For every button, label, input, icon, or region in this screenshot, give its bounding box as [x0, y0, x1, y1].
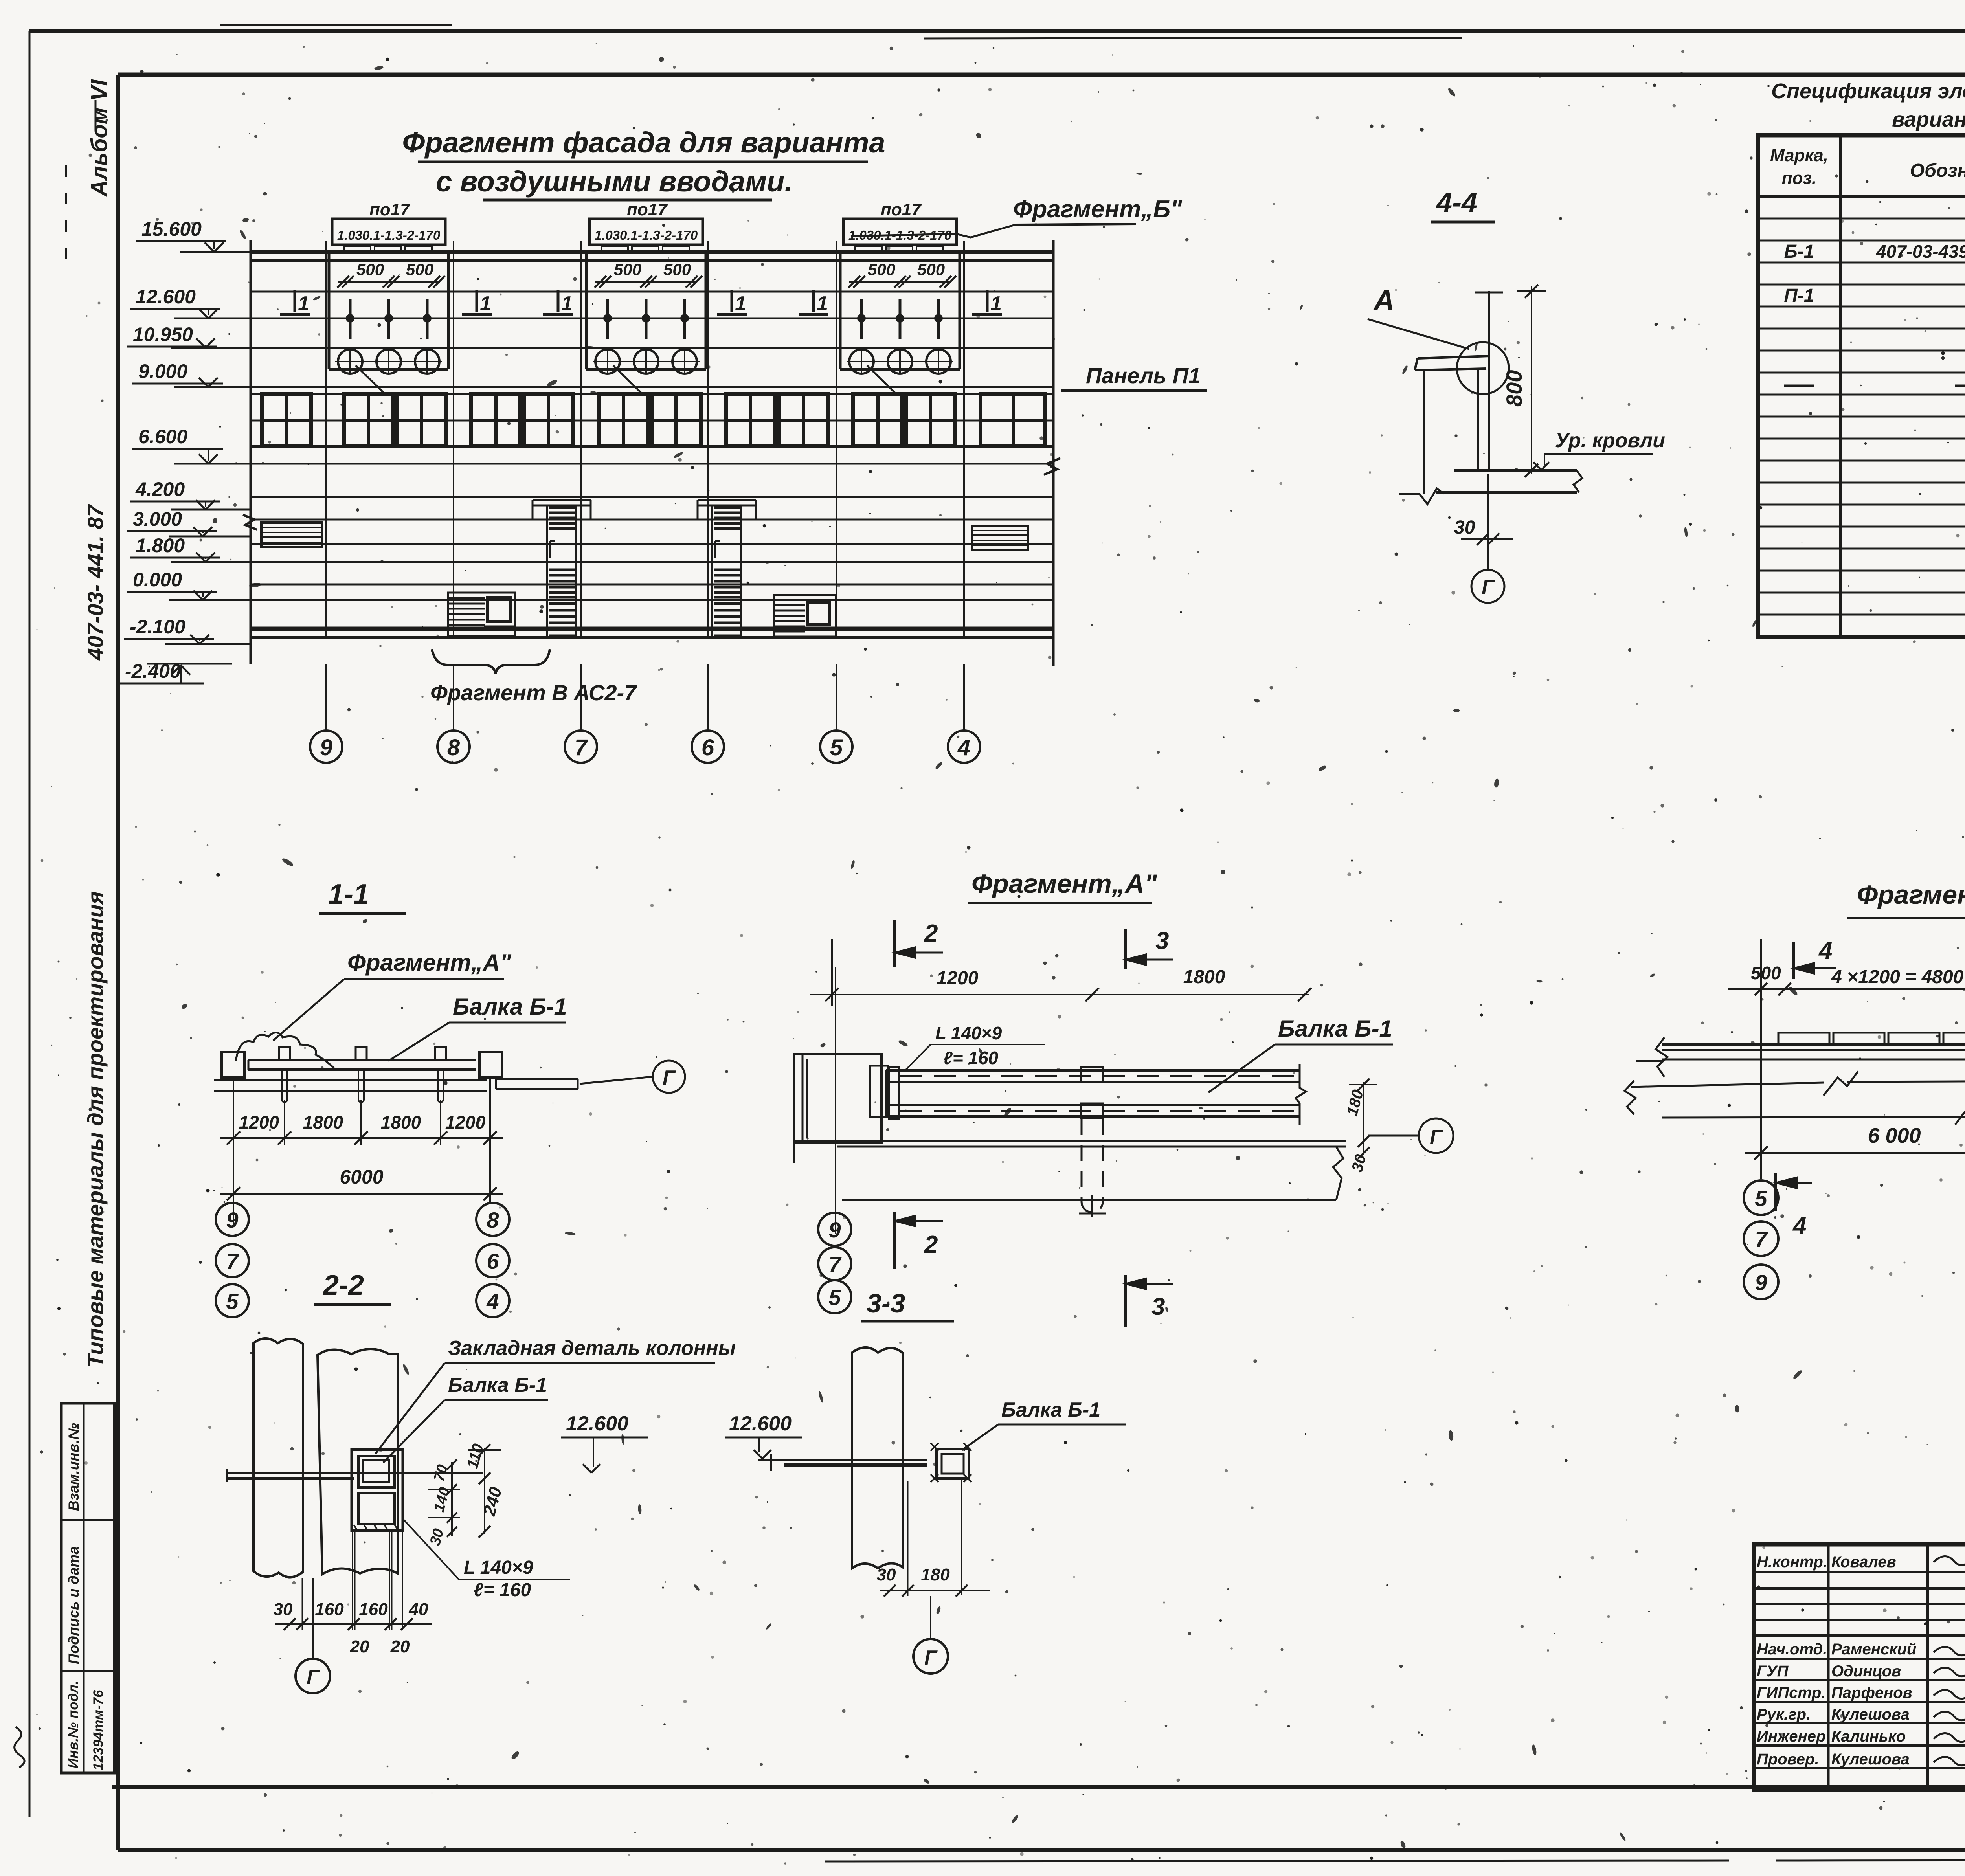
svg-text:800: 800	[1502, 370, 1526, 407]
svg-text:Подпись и дата: Подпись и дата	[66, 1546, 82, 1664]
fragment A: axis line	[835, 967, 836, 1234]
axis circle 4	[948, 731, 980, 763]
svg-text:А: А	[1373, 284, 1394, 317]
svg-text:1800: 1800	[303, 1112, 343, 1133]
svg-text:2-2: 2-2	[322, 1270, 364, 1301]
title block outline	[1754, 1544, 1965, 1790]
window unit	[652, 394, 701, 446]
hatched foundation block	[774, 595, 836, 637]
1-1 beam body	[248, 1059, 476, 1061]
window unit	[853, 394, 902, 446]
svg-text:6000: 6000	[340, 1166, 383, 1188]
svg-text:20: 20	[390, 1637, 410, 1656]
svg-text:Панель П1: Панель П1	[1086, 363, 1201, 388]
fragment A: slab lines	[794, 1140, 1346, 1142]
3-3: column	[852, 1347, 903, 1568]
svg-text:1800: 1800	[1183, 967, 1225, 988]
specification table grid	[1758, 135, 1965, 637]
3-3: bottom dims 30/180	[907, 1481, 909, 1596]
svg-text:1.030.1-1.3-2-170: 1.030.1-1.3-2-170	[337, 228, 441, 242]
svg-text:4: 4	[1818, 937, 1832, 964]
insulator base circle	[376, 349, 401, 374]
svg-text:Фрагмент В АС2-7: Фрагмент В АС2-7	[430, 680, 637, 705]
svg-text:4: 4	[957, 735, 970, 760]
svg-text:Нач.отд.: Нач.отд.	[1757, 1641, 1827, 1658]
section flag markers "1" on wall	[280, 313, 310, 316]
svg-text:Закладная деталь колонны: Закладная деталь колонны	[448, 1337, 736, 1360]
detail A circle on 4-4	[1457, 342, 1509, 394]
svg-text:0.000: 0.000	[133, 569, 182, 591]
insulator	[683, 299, 686, 339]
1-1 dimension row	[233, 1077, 234, 1224]
table material dashes	[1784, 385, 1814, 387]
fragment A: leader to axis G	[1368, 1135, 1420, 1137]
column axis lines on facade	[325, 241, 327, 637]
svg-text:1200: 1200	[445, 1112, 486, 1133]
svg-text:12394тм-76: 12394тм-76	[91, 1690, 106, 1770]
fragment B: panel band lines	[1662, 1043, 1965, 1046]
svg-text:160: 160	[315, 1600, 344, 1619]
fragment B: top welded plates	[1778, 1033, 1829, 1044]
svg-text:ГИПстр.: ГИПстр.	[1757, 1684, 1825, 1702]
2-2: vertical dims 110/240	[484, 1448, 485, 1534]
axis circle G	[653, 1061, 685, 1093]
svg-text:Рук.гр.: Рук.гр.	[1757, 1706, 1811, 1723]
svg-text:Балка Б-1: Балка Б-1	[1001, 1399, 1100, 1421]
svg-text:Марка,: Марка,	[1770, 146, 1828, 165]
svg-text:500: 500	[663, 260, 691, 279]
insulator	[860, 299, 863, 339]
insulator base circle	[672, 349, 697, 374]
window unit	[524, 394, 573, 446]
window unit	[726, 394, 775, 446]
fragment A: bolt plates mid	[1081, 1067, 1103, 1082]
1-1 beam right end block	[479, 1052, 502, 1078]
svg-text:Фрагмент фасада для варианта: Фрагмент фасада для варианта	[402, 126, 885, 159]
svg-text:8: 8	[487, 1208, 499, 1232]
svg-text:30: 30	[274, 1600, 293, 1619]
svg-text:ℓ= 160: ℓ= 160	[474, 1580, 531, 1601]
1-1 slab lines	[214, 1079, 487, 1081]
svg-text:Кулешова: Кулешова	[1831, 1706, 1910, 1723]
svg-text:Балка Б-1: Балка Б-1	[448, 1374, 547, 1397]
svg-text:Ур. кровли: Ур. кровли	[1555, 429, 1665, 452]
insulator	[606, 299, 609, 339]
insulator base circle	[595, 349, 620, 374]
axis circle 5	[820, 731, 852, 763]
svg-text:Г: Г	[924, 1647, 938, 1669]
fragment A: section flag 2 top	[893, 920, 896, 967]
facade horizontal joint lines	[251, 250, 1053, 254]
svg-text:1: 1	[990, 292, 1002, 315]
2-2: axis circle G	[312, 1578, 314, 1659]
louver grille right	[972, 526, 1028, 550]
svg-text:поз.: поз.	[1782, 169, 1816, 188]
svg-text:7: 7	[828, 1252, 842, 1277]
svg-text:500: 500	[406, 260, 433, 279]
svg-text:Типовые материалы для проек: Типовые материалы для проектирования	[83, 891, 108, 1368]
axis circle 7	[565, 731, 597, 763]
signature squiggles	[1934, 1556, 1965, 1565]
svg-text:варианта с воздушными вводам: варианта с воздушными вводами.	[1892, 108, 1965, 131]
svg-text:1: 1	[817, 292, 828, 315]
svg-text:4: 4	[486, 1289, 499, 1314]
insulator base circle	[634, 349, 658, 374]
4-4 vertical rod	[1488, 291, 1490, 472]
2-2: bottom dims 30/160/160/40	[302, 1578, 303, 1630]
svg-text:5: 5	[830, 735, 843, 760]
window unit	[344, 394, 393, 446]
svg-text:Г: Г	[1430, 1126, 1443, 1149]
fragment A: anchor stud dashed	[1081, 1119, 1083, 1202]
fragment A: beam top chord	[886, 1069, 1300, 1072]
fragment A: section flag 3 top	[1124, 929, 1127, 969]
svg-text:407-03- 441. 87: 407-03- 441. 87	[83, 504, 108, 661]
svg-text:1: 1	[298, 292, 309, 315]
fragment A: column	[794, 1054, 881, 1143]
svg-text:3.000: 3.000	[133, 508, 182, 530]
insulator	[645, 299, 648, 339]
svg-text:500: 500	[868, 260, 895, 279]
svg-text:3-3: 3-3	[867, 1289, 905, 1318]
4-4 wall	[1423, 370, 1425, 494]
svg-text:1: 1	[735, 292, 746, 315]
svg-text:9: 9	[226, 1208, 238, 1232]
insulator	[937, 299, 940, 339]
fragment B: lower band lines	[1631, 1083, 1824, 1087]
fragment A: section flag 2 bottom	[893, 1212, 896, 1269]
svg-text:Ковалев: Ковалев	[1831, 1553, 1896, 1571]
axis circle 8	[437, 731, 470, 763]
svg-text:40: 40	[409, 1600, 428, 1619]
fragment A: dim 180/30	[1363, 1082, 1364, 1155]
axis circle G	[1471, 570, 1504, 603]
hatched foundation block	[448, 593, 515, 636]
svg-text:Калинько: Калинько	[1831, 1728, 1906, 1745]
4-4 roof slab	[1454, 469, 1577, 472]
svg-text:4: 4	[1792, 1212, 1806, 1239]
svg-text:9: 9	[1755, 1270, 1767, 1295]
svg-text:500: 500	[614, 260, 641, 279]
1-1 leader to axis G	[580, 1077, 652, 1084]
svg-text:30: 30	[877, 1565, 896, 1584]
svg-text:Г: Г	[663, 1066, 676, 1089]
svg-text:1200: 1200	[937, 968, 979, 989]
svg-text:30: 30	[1454, 517, 1475, 538]
insulator base circle	[849, 349, 874, 374]
svg-text:ГУП: ГУП	[1757, 1663, 1789, 1680]
1-1 axis circles right	[476, 1203, 509, 1236]
svg-text:Парфенов: Парфенов	[1831, 1684, 1912, 1702]
svg-text:по17: по17	[627, 200, 668, 219]
svg-text:Раменский: Раменский	[1831, 1641, 1916, 1658]
insulator base circle	[926, 349, 951, 374]
svg-text:Б-1: Б-1	[1784, 241, 1814, 262]
svg-text:1200: 1200	[239, 1112, 279, 1133]
1-1 beam left end block	[222, 1052, 244, 1078]
fragment A: beam bottom chord	[886, 1104, 1300, 1106]
svg-text:Фрагмент„А": Фрагмент„А"	[971, 869, 1157, 899]
svg-text:-2.100: -2.100	[130, 616, 185, 638]
left margin stamp box	[61, 1403, 114, 1773]
svg-text:1: 1	[561, 292, 573, 315]
svg-text:1: 1	[480, 292, 491, 315]
svg-text:12.600: 12.600	[729, 1412, 792, 1435]
svg-text:9: 9	[320, 735, 332, 760]
svg-text:7: 7	[1755, 1227, 1768, 1252]
svg-text:Г: Г	[307, 1666, 320, 1689]
svg-text:5: 5	[226, 1289, 239, 1314]
4-4 dim 800	[1531, 286, 1532, 474]
svg-text:3: 3	[1155, 927, 1169, 955]
svg-text:ℓ= 160: ℓ= 160	[943, 1048, 999, 1068]
fragment A: beam left connection	[885, 1070, 887, 1116]
panel P1 leader diagonals	[356, 365, 384, 393]
2-2: embedded plate detail	[352, 1450, 403, 1531]
fragment A: beam right break	[1296, 1064, 1306, 1125]
svg-text:8: 8	[447, 735, 460, 760]
bottom strip separator line	[112, 1785, 1965, 1789]
sheet outer top edge	[29, 29, 1965, 33]
svg-text:500: 500	[356, 260, 384, 279]
axis circle G	[1419, 1118, 1453, 1153]
facade right break mark	[1044, 458, 1060, 475]
fragment B: band break marks	[1824, 1071, 1858, 1096]
fragment B: axis circles left	[1744, 1180, 1778, 1215]
svg-text:407-03-439.87 —КН-19: 407-03-439.87 —КН-19	[1876, 241, 1965, 262]
exhaust stack tower	[698, 499, 756, 501]
svg-text:Спецификация элементов к фра: Спецификация элементов к фрагменту фасад…	[1771, 79, 1965, 103]
svg-text:6: 6	[702, 735, 714, 760]
svg-text:Фрагмент„А": Фрагмент„А"	[347, 949, 512, 976]
insulator base circle	[888, 349, 912, 374]
window unit	[599, 394, 648, 446]
svg-text:L 140×9: L 140×9	[464, 1557, 533, 1578]
1-1 dim 6000	[220, 1193, 503, 1195]
svg-text:2: 2	[924, 920, 938, 947]
insulator	[899, 299, 902, 339]
facade elevation: wall outline	[250, 240, 252, 664]
svg-text:180: 180	[921, 1565, 950, 1584]
svg-text:по17: по17	[369, 200, 411, 219]
svg-text:Инв.№ подл.: Инв.№ подл.	[66, 1681, 81, 1768]
svg-text:П-1: П-1	[1784, 285, 1814, 306]
insulator	[426, 299, 429, 339]
window unit	[262, 394, 311, 446]
2-2: vertical dims 70/140/30	[451, 1462, 453, 1536]
louver grille left	[261, 523, 322, 547]
svg-text:500: 500	[917, 260, 945, 279]
svg-text:Взам.инв.№: Взам.инв.№	[66, 1423, 82, 1511]
title block signature grid	[1827, 1544, 1830, 1790]
svg-text:Альбом VI: Альбом VI	[86, 79, 112, 197]
svg-text:1800: 1800	[381, 1112, 421, 1133]
svg-text:Фрагмент„Б": Фрагмент„Б"	[1857, 880, 1965, 910]
2-2: right column	[318, 1349, 398, 1574]
2-2: beam axis line	[227, 1472, 483, 1474]
svg-text:4-4: 4-4	[1436, 187, 1477, 218]
svg-text:Г: Г	[1482, 576, 1495, 599]
svg-text:Фрагмент„Б": Фрагмент„Б"	[1013, 196, 1183, 223]
svg-text:15.600: 15.600	[141, 218, 202, 240]
fragment V brace and label	[432, 649, 550, 674]
svg-text:12.600: 12.600	[566, 1412, 628, 1435]
svg-text:1-1: 1-1	[328, 879, 369, 910]
window unit	[397, 394, 446, 446]
svg-text:Провер.: Провер.	[1757, 1751, 1819, 1768]
inner drawing frame	[118, 73, 1965, 77]
insulator	[349, 299, 352, 339]
svg-text:160: 160	[359, 1600, 388, 1619]
svg-text:Одинцов: Одинцов	[1831, 1663, 1901, 1680]
svg-text:Кулешова: Кулешова	[1831, 1751, 1910, 1768]
fragment B: dim 6000	[1745, 1152, 1965, 1154]
svg-text:4 ×1200 = 4800: 4 ×1200 = 4800	[1831, 967, 1964, 988]
fragment B: section flag 4 bottom	[1774, 1173, 1777, 1211]
facade left break mark	[243, 515, 257, 530]
svg-text:6: 6	[487, 1249, 499, 1274]
axis circle 6	[692, 731, 724, 763]
1-1 axis circles left	[216, 1203, 249, 1236]
svg-text:Обозначение: Обозначение	[1910, 160, 1965, 181]
fragment B: left end break	[1656, 1037, 1667, 1077]
svg-text:12.600: 12.600	[136, 286, 196, 308]
svg-text:1.030.1-1.3-2-170: 1.030.1-1.3-2-170	[595, 228, 698, 242]
svg-text:500: 500	[1751, 963, 1781, 983]
svg-text:7: 7	[575, 735, 588, 760]
2-2: left column	[253, 1338, 303, 1577]
insulator base circle	[415, 349, 439, 374]
svg-text:1.800: 1.800	[136, 534, 185, 556]
svg-text:6 000: 6 000	[1868, 1124, 1921, 1147]
insulator	[387, 299, 390, 339]
fragment A: top dimension 1200 / 1800	[831, 939, 833, 1006]
fragment A: axis circles	[818, 1213, 851, 1246]
svg-text:5: 5	[1755, 1186, 1767, 1211]
exhaust stack tower	[533, 499, 591, 501]
svg-text:9: 9	[828, 1217, 841, 1242]
fragment B: axis verticals	[1760, 939, 1762, 1179]
fragment A: section flag 3 bottom	[1124, 1275, 1127, 1327]
window unit	[471, 394, 520, 446]
svg-text:Балка Б-1: Балка Б-1	[1278, 1015, 1392, 1042]
svg-text:L 140×9: L 140×9	[935, 1023, 1002, 1043]
window unit	[779, 394, 828, 446]
svg-text:7: 7	[226, 1249, 239, 1274]
1-1 revision cloud wavy line	[236, 1032, 334, 1069]
sheet outer left edge	[29, 31, 31, 1817]
svg-text:Н.контр.: Н.контр.	[1757, 1553, 1827, 1571]
svg-text:по17: по17	[881, 200, 922, 219]
insulator base circle	[338, 349, 362, 374]
svg-text:6.600: 6.600	[138, 426, 187, 448]
svg-text:Инженер: Инженер	[1757, 1728, 1825, 1745]
svg-text:с воздушными вводами.: с воздушными вводами.	[436, 165, 793, 198]
bottom-left pen swirl	[15, 1727, 24, 1768]
window unit	[981, 394, 1045, 446]
svg-text:5: 5	[828, 1285, 841, 1310]
svg-text:3: 3	[1151, 1293, 1165, 1320]
3-3: axis circle G	[930, 1596, 931, 1639]
1-1 beam bolts	[279, 1047, 290, 1060]
3-3: beam end box	[937, 1449, 969, 1478]
axis circle 9	[310, 731, 342, 763]
3-3: beam axis	[758, 1459, 927, 1461]
outer bottom partial line	[825, 1861, 1729, 1861]
window unit	[906, 394, 955, 446]
svg-text:9.000: 9.000	[138, 360, 187, 382]
svg-text:4.200: 4.200	[135, 478, 185, 500]
svg-text:10.950: 10.950	[133, 323, 193, 345]
svg-text:Балка Б-1: Балка Б-1	[453, 993, 567, 1020]
svg-text:2: 2	[924, 1231, 938, 1258]
fragment B: section flag 4 top	[1792, 942, 1795, 979]
4-4 top plate	[1418, 356, 1489, 358]
svg-text:20: 20	[350, 1637, 369, 1656]
